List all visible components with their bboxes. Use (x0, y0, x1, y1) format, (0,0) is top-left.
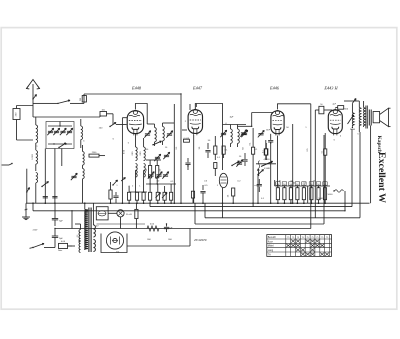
svg-text:FL=20: FL=20 (126, 214, 133, 216)
resistor R17 (135, 209, 138, 218)
svg-text:Lang: Lang (268, 249, 274, 252)
wire cap drops (54, 244, 56, 248)
trimmer CT6c (148, 174, 153, 176)
wire v307 vertical (307, 186, 309, 203)
IF transformer T2 primary (231, 129, 233, 143)
tube V2 E447 (188, 110, 202, 134)
power transformer T4 core (88, 208, 90, 253)
tuning gang frame G1 (46, 122, 74, 149)
tube V3 E446 (271, 111, 284, 134)
svg-text:Netz: Netz (58, 249, 62, 252)
resistor RB3 (289, 188, 292, 200)
switch S7 mains (33, 244, 44, 248)
wire speaker down (370, 126, 372, 204)
wire under E448 h-link (146, 159, 161, 161)
resistor R15 (265, 149, 268, 155)
svg-text:Excellent W: Excellent W (376, 152, 387, 203)
switch S3 (42, 182, 49, 187)
svg-text:E443 H: E443 H (323, 85, 338, 90)
wire P3 top arrow (352, 99, 356, 104)
switch S1b band (58, 100, 70, 103)
resistor R9 (222, 146, 225, 154)
resistor R3c (170, 192, 173, 200)
svg-text:5000: 5000 (318, 198, 324, 200)
coil L5 (83, 152, 85, 166)
trimmer CT6d (156, 174, 161, 176)
wire E443 top (329, 109, 333, 111)
potentiometer P3 200ohm (352, 113, 354, 127)
tube V4 E443H (328, 110, 342, 134)
capacitor C6 (205, 150, 210, 152)
trimmer CT5 padder (71, 175, 76, 177)
capacitor C14 (164, 226, 169, 228)
trimmer CT1 (48, 130, 53, 132)
power transformer T4 aux winding (79, 230, 81, 242)
power transformer T4 primary (85, 210, 88, 251)
potentiometer P1 vol (261, 162, 273, 167)
ground GND1 (25, 213, 27, 217)
trimmer CT6e (163, 174, 168, 176)
capacitor C12 (268, 140, 273, 142)
svg-text:8nF: 8nF (266, 130, 270, 132)
wire E447 anode loop (195, 104, 222, 129)
resistor R7 grid stopper (184, 139, 190, 142)
switch S11 tick (121, 178, 125, 182)
resistor R1 2500 (89, 154, 99, 157)
svg-text:0.003: 0.003 (184, 138, 190, 140)
IF transformer T1 secondary (163, 127, 165, 141)
resistor R18 surge (147, 226, 159, 231)
switch S8 (113, 180, 118, 185)
svg-text:5μF: 5μF (169, 228, 173, 230)
rectifier tube V5 (106, 232, 123, 249)
capacitor C2 coupling 500 (82, 96, 86, 103)
resistor RB8 (323, 188, 326, 200)
capacitor C3 (43, 196, 48, 198)
trimmer CT11 (241, 132, 246, 134)
wire to tube grid (107, 113, 114, 115)
switch S2 wave change (59, 143, 66, 148)
wire mid verticals b (54, 149, 56, 204)
wire antenna to input filter (32, 105, 34, 117)
svg-text:Kapsch: Kapsch (376, 136, 382, 153)
wire gang bottom links (48, 143, 72, 145)
wire v253 drop (252, 203, 254, 206)
resistor R3b (163, 192, 166, 200)
svg-text:ZF=128kHz: ZF=128kHz (193, 239, 207, 242)
wire E446 anode loop (278, 104, 311, 110)
bus B6 (55, 228, 311, 230)
speaker LS1 magnet bars (368, 110, 370, 126)
wire cap mid riser (71, 211, 73, 229)
svg-text:200Ω: 200Ω (350, 129, 356, 131)
potentiometer P2 (261, 161, 272, 166)
svg-text:7000: 7000 (343, 109, 349, 111)
wire T1 top link (147, 123, 154, 125)
resistor R20 cathode (191, 191, 194, 198)
wire under E448 links (129, 191, 147, 193)
coil L4 osc (36, 173, 38, 183)
wire left long (26, 169, 28, 204)
wire heater line (97, 223, 146, 225)
wire H1 drop to E447 grid (180, 94, 182, 203)
wire left col (32, 203, 34, 211)
svg-text:Mittel: Mittel (268, 245, 274, 248)
svg-text:0.1: 0.1 (262, 151, 264, 154)
resistor R16 bias (324, 149, 327, 155)
wire input node down (16, 124, 18, 140)
bus B2 (150, 206, 352, 208)
power transformer T4 secondary (93, 225, 95, 237)
terminal Erde stub (2, 164, 10, 166)
trimmer CT8 (167, 133, 172, 135)
capacitor C18 (113, 195, 118, 197)
capacitor C9 (242, 159, 247, 161)
IF transformer T1 primary (155, 128, 157, 142)
trimmer CT4 (67, 130, 72, 132)
wire v270 drop (270, 143, 272, 203)
capacitor C6b (185, 162, 190, 164)
trimmer CT3 (60, 130, 65, 132)
svg-text:4,5MΩ: 4,5MΩ (264, 159, 270, 161)
svg-text:3μF: 3μF (230, 117, 234, 119)
wavy arrow detector (258, 161, 259, 169)
trimmer CT13 (237, 162, 242, 164)
capacitor C17 mains (59, 243, 68, 248)
label RB7 (316, 182, 320, 186)
label RB2 (282, 182, 286, 186)
wire gang top bus (48, 125, 72, 127)
svg-text:6.3: 6.3 (77, 235, 79, 238)
wire T3 top (344, 100, 359, 102)
capacitor C16 8uF (52, 235, 58, 237)
electrolytic C7 can (219, 173, 227, 187)
wire T4 primary top (80, 224, 82, 230)
svg-text:E447: E447 (192, 85, 203, 90)
resistor R3 (156, 192, 159, 200)
switch S1a antenna (33, 95, 37, 100)
wire T2 top (223, 124, 247, 126)
trimmer CT6b (155, 156, 160, 158)
wire IF2 to E446 grid cap (238, 125, 252, 127)
svg-text:E448: E448 (131, 85, 142, 90)
coil L3 osc (36, 150, 38, 164)
wire E446 cathode drop (277, 136, 279, 187)
label RB6 (309, 182, 313, 186)
wire E448 anode loop (135, 104, 147, 125)
wire v222 lower (222, 188, 224, 203)
switch S9 tone (258, 170, 264, 175)
label RB3 (289, 182, 293, 186)
voltage table (267, 235, 332, 257)
resistor R5 (135, 192, 138, 200)
wire x75 riser (68, 245, 73, 247)
coil L10 (144, 164, 146, 178)
bus B1 main ground (26, 202, 370, 204)
output transformer T3 secondary (364, 108, 366, 128)
bus B3 (33, 210, 345, 212)
svg-text:5000: 5000 (328, 194, 334, 196)
resistor R11 (232, 188, 235, 196)
coil L9 (144, 147, 146, 161)
wire E448 cathode drop (121, 118, 123, 204)
trimmer CT6g (162, 193, 167, 199)
IF transformer T2 secondary (238, 129, 240, 143)
wire right vertical x174 (173, 104, 175, 203)
wire grid feed E448 (33, 116, 100, 118)
wire x222 vertical (222, 128, 224, 170)
svg-text:Kurz: Kurz (268, 240, 274, 243)
wire T3 bottom (358, 127, 360, 132)
wire v292 vertical (292, 124, 294, 203)
trimmer CT6 (164, 154, 169, 156)
capacitor C8 (200, 191, 205, 193)
output transformer T3 primary (359, 108, 361, 128)
switch S4 (110, 123, 116, 127)
capacitor C11 coupling (319, 106, 324, 114)
resistor RB7 (317, 188, 320, 200)
resistor R2a (149, 166, 152, 178)
trimmer CT6f (156, 193, 161, 199)
svg-text:TA: TA (268, 253, 271, 256)
svg-text:E446: E446 (269, 85, 280, 90)
wire v190 (189, 104, 191, 110)
svg-text:220V: 220V (33, 230, 38, 232)
output transformer T3 core (365, 106, 367, 129)
tube V1 E448 (127, 111, 143, 134)
wire rect to heater (127, 245, 190, 247)
wire top rail H1 (84, 93, 181, 95)
coil L7 IF1 primary feed (136, 147, 138, 161)
capacitor C10 (257, 184, 262, 186)
dial lamp LA1 (117, 210, 124, 217)
capacitor C1 input series (13, 109, 20, 120)
capacitor C15 8uF (52, 218, 58, 220)
wire lamp drop (120, 217, 122, 229)
label RB8 (323, 182, 327, 186)
coil L8 (136, 164, 138, 178)
wire mid verticals c (61, 149, 63, 167)
label RB1 (276, 182, 280, 186)
resistor RB6 (310, 188, 313, 200)
capacitor C4 (52, 196, 57, 198)
trimmer CT2 (54, 130, 59, 132)
coil L1 antenna primary (36, 125, 38, 143)
svg-text:4,5MΩ: 4,5MΩ (264, 168, 270, 170)
wire feeder line y186 (275, 185, 330, 187)
bus B5 (195, 223, 324, 225)
antenna A1 (32, 84, 34, 105)
node H1 drop (180, 93, 181, 94)
wire E447 cathode down (193, 135, 195, 203)
label RB5 (302, 182, 306, 186)
trimmer CT7 (145, 133, 150, 135)
capacitor C13 2uF (338, 106, 344, 110)
label RB4 (295, 182, 299, 186)
magic eye EM box (96, 207, 108, 220)
svg-text:Bereich: Bereich (268, 236, 277, 239)
svg-text:0.1: 0.1 (321, 151, 323, 154)
wire x315 vertical (314, 110, 316, 218)
resistor RB2 (283, 188, 286, 200)
trimmer CT9 (221, 132, 226, 134)
rectifier loop box (101, 234, 127, 253)
resistor R13 (264, 149, 267, 155)
wire to riser (70, 102, 84, 104)
switch S6 (232, 161, 240, 166)
resistor RB1 (276, 188, 279, 200)
resistor R6 (142, 192, 145, 200)
resistor R8 (214, 146, 217, 154)
wire riser to top rail (83, 94, 85, 103)
resistor R12 (252, 147, 255, 154)
resistor R4 (128, 192, 131, 200)
wire mid verticals a (44, 149, 46, 204)
svg-text:0.003: 0.003 (32, 153, 34, 159)
resistor R19 (109, 190, 112, 199)
coil L2 antenna secondary (81, 126, 83, 140)
wire E447 screen drop (182, 129, 187, 131)
switch S10 IF link (153, 141, 162, 145)
trimmer CT10 (242, 132, 247, 134)
resistor R10 (214, 163, 217, 169)
resistor RB4 (296, 188, 299, 200)
squiggle AC symbol (335, 190, 344, 193)
speaker LS1 cone (380, 108, 389, 126)
resistor RB5 (302, 188, 305, 200)
wire lower rail left (33, 102, 45, 104)
speaker LS1 driver (373, 112, 380, 123)
trimmer CT12 (258, 133, 263, 135)
wire x310 vertical (310, 104, 312, 225)
bus B4 (205, 217, 360, 219)
wire bus drops (194, 203, 196, 224)
capacitor C5 grid (100, 112, 107, 117)
resistor R3a (156, 166, 159, 178)
resistor R2 (149, 192, 152, 200)
coil L6 (83, 169, 85, 179)
